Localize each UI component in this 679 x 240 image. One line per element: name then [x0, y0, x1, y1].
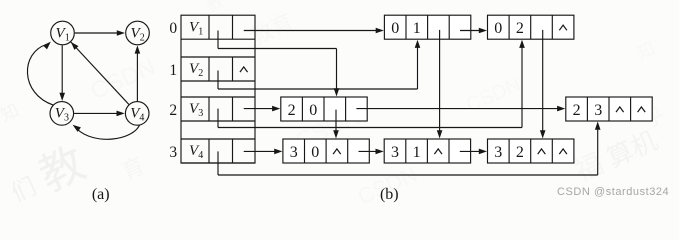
arc node (3,2) [488, 139, 574, 163]
svg-text:2: 2 [516, 20, 524, 37]
svg-text:3: 3 [64, 113, 69, 124]
svg-text:1: 1 [413, 144, 421, 161]
graph node V3 [50, 102, 74, 126]
watermark CSDN @stardust324 [557, 186, 669, 198]
vertex node V1 label [189, 19, 203, 37]
pointer arc(3,0).tlink -> arc(3,1) [359, 149, 384, 155]
pointer V4.firstin -> arc(2,3) [218, 122, 601, 176]
svg-text:2: 2 [140, 32, 145, 43]
svg-text:0: 0 [391, 20, 399, 37]
pointer V4.firstout -> arc(3,0) [244, 149, 283, 155]
arc node (0,2) [488, 15, 574, 39]
pointer V2.firstin -> arc(0,1) [218, 40, 420, 89]
svg-text:2: 2 [288, 102, 296, 119]
vertex node V2 label [189, 61, 203, 79]
row label 2 [169, 102, 177, 119]
svg-text:0: 0 [309, 102, 317, 119]
caption (a) [92, 186, 110, 203]
svg-text:3: 3 [198, 108, 203, 119]
edge V4->V1 (diagonal) [68, 39, 129, 104]
svg-text:0: 0 [169, 20, 177, 37]
edge V4->V3 (bottom curve) [73, 124, 140, 139]
svg-text:3: 3 [169, 144, 177, 161]
pointer arc(3,1).tlink -> arc(3,2) [460, 149, 487, 155]
vertex node V4 label [189, 143, 203, 161]
edge V3->V4 [74, 111, 125, 117]
svg-text:4: 4 [139, 113, 144, 124]
svg-text:1: 1 [169, 62, 177, 79]
graph node V2 [126, 21, 150, 45]
svg-text:3: 3 [391, 144, 399, 161]
vertex table frame [181, 15, 255, 163]
row label 1 [169, 62, 177, 79]
pointer arc(2,0).hlink -> arc(3,0) [333, 110, 339, 139]
vertex V2 firstout ^ [240, 67, 248, 72]
svg-text:2: 2 [169, 102, 177, 119]
svg-text:(b): (b) [380, 186, 399, 203]
svg-text:2: 2 [516, 144, 524, 161]
pointer arc(2,0).tlink -> arc(2,3) [356, 106, 565, 112]
arc node (3,1) [384, 139, 470, 163]
svg-text:0: 0 [311, 144, 319, 161]
graph node V1 [51, 21, 75, 45]
svg-text:1: 1 [65, 32, 70, 43]
svg-text:1: 1 [198, 26, 203, 37]
arc node (2,3) [566, 97, 652, 121]
svg-text:2: 2 [198, 68, 203, 79]
pointer arc(0,1).tlink -> arc(0,2) [460, 28, 487, 34]
svg-text:2: 2 [573, 102, 581, 119]
row label 3 [169, 144, 177, 161]
edge V1->V2 [75, 30, 125, 36]
edge V1->V3 [59, 45, 65, 101]
caption (b) [380, 186, 399, 203]
svg-text:CSDN @stardust324: CSDN @stardust324 [557, 186, 669, 198]
arc node (0,1) [384, 15, 470, 39]
pointer arc(0,1).hlink -> arc(3,1) [437, 30, 443, 139]
svg-text:(a): (a) [92, 186, 110, 203]
pointer V1.firstin -> arc(2,0) [218, 31, 339, 97]
edge V4->V2 [135, 45, 141, 101]
svg-text:3: 3 [594, 102, 602, 119]
pointer arc(0,2).hlink -> arc(3,2) [540, 30, 546, 139]
pointer V1.firstout -> arc(0,1) [244, 28, 384, 34]
pointer V3.firstin -> arc(0,2) [218, 40, 525, 128]
arc node (2,0) [281, 97, 367, 121]
svg-text:0: 0 [494, 20, 502, 37]
svg-text:1: 1 [413, 20, 421, 37]
row label 0 [169, 20, 177, 37]
svg-text:3: 3 [290, 144, 298, 161]
arc node (3,0) [283, 139, 369, 163]
graph node V4 [125, 102, 149, 126]
svg-text:4: 4 [198, 150, 203, 161]
vertex node V3 label [189, 101, 203, 119]
svg-text:3: 3 [494, 144, 502, 161]
edge V3->V1 (left curve) [27, 42, 53, 106]
pointer V3.firstout -> arc(2,0) [244, 106, 281, 112]
